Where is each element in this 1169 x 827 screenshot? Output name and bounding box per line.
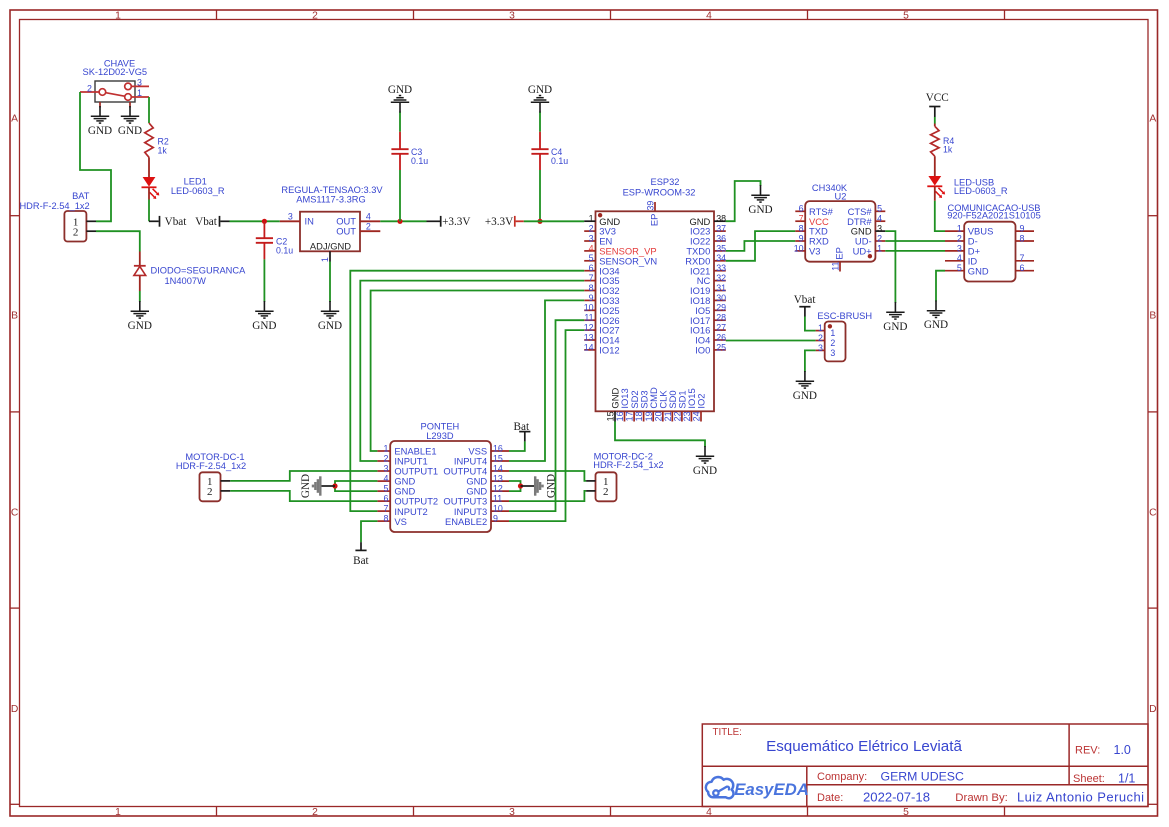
svg-text:Drawn By:: Drawn By: [955, 792, 1008, 804]
svg-text:9: 9 [493, 513, 498, 523]
svg-text:V3: V3 [809, 246, 820, 257]
svg-text:2: 2 [312, 10, 318, 21]
svg-text:SK-12D02-VG5: SK-12D02-VG5 [83, 67, 148, 77]
svg-text:VS: VS [394, 516, 407, 527]
wire Vbat to ESC pin1 [805, 317, 816, 331]
wire LED1 to Vbat flag [148, 200, 150, 222]
capacitor C3 0.1u [391, 132, 428, 170]
svg-text:0.1u: 0.1u [551, 156, 568, 166]
wire +3.3V to ESP32 pin1 [524, 220, 584, 222]
svg-text:22: 22 [672, 411, 682, 421]
svg-text:9: 9 [799, 233, 804, 243]
svg-text:10: 10 [493, 503, 503, 513]
title block [702, 724, 1148, 807]
svg-text:3: 3 [818, 343, 823, 353]
ground flag below C2 [252, 301, 276, 332]
ground flag sideways left [300, 474, 335, 498]
svg-text:2: 2 [87, 84, 92, 94]
svg-text:1.0: 1.0 [1114, 743, 1131, 757]
net flag Bat top [514, 421, 531, 442]
svg-text:4: 4 [706, 807, 712, 818]
svg-text:EasyEDA: EasyEDA [734, 780, 809, 799]
wire ESP32 IO35 to L293D INPUT1 [360, 281, 584, 461]
svg-text:16: 16 [615, 411, 625, 421]
svg-text:35: 35 [716, 243, 726, 253]
svg-text:3: 3 [288, 212, 293, 222]
svg-text:8: 8 [1020, 233, 1025, 243]
svg-text:ESC-BRUSH: ESC-BRUSH [817, 311, 872, 321]
wire ESP32 RXD0 to CH340K TXD [726, 231, 796, 261]
svg-text:20: 20 [653, 411, 663, 421]
wire ESP32 IO4 to ESC-BRUSH pin2 [726, 340, 816, 342]
svg-text:23: 23 [682, 411, 692, 421]
svg-text:5: 5 [383, 483, 388, 493]
svg-text:12: 12 [584, 323, 594, 333]
svg-text:21: 21 [663, 411, 673, 421]
wire L293D OUTPUT4 to MOTOR-DC-2 pin1 [509, 471, 586, 481]
svg-text:A: A [1149, 114, 1156, 125]
svg-text:GND: GND [924, 319, 948, 331]
svg-text:1: 1 [957, 224, 962, 234]
svg-text:2: 2 [73, 227, 79, 239]
net flag VCC [926, 92, 949, 117]
svg-text:5: 5 [957, 263, 962, 273]
svg-text:13: 13 [584, 332, 594, 342]
svg-text:EP: EP [649, 214, 660, 227]
capacitor C2 0.1u [256, 221, 293, 259]
svg-text:PONTEH: PONTEH [421, 421, 460, 431]
wire ESP32 IO32 to L293D ENABLE1 [371, 291, 585, 452]
svg-text:3: 3 [137, 78, 142, 88]
svg-text:L293D: L293D [426, 431, 454, 441]
svg-text:0.1u: 0.1u [411, 156, 428, 166]
wire C2 to ground [263, 259, 265, 302]
svg-text:ADJ/GND: ADJ/GND [310, 241, 351, 252]
svg-text:3: 3 [509, 10, 515, 21]
resistor R4 1k [931, 124, 955, 177]
IC U2 CH340K [794, 183, 886, 271]
svg-text:IN: IN [305, 216, 314, 227]
wire USB GND to ground [936, 271, 945, 302]
svg-text:AMS1117-3.3RG: AMS1117-3.3RG [296, 195, 365, 205]
net flag Vbat at ESC [794, 294, 817, 316]
ground flag below diode [128, 301, 152, 332]
connector MOTOR-DC-2 HDR-F-2.54_1x2 [586, 451, 663, 501]
svg-text:0.1u: 0.1u [276, 246, 293, 256]
svg-text:Vbat: Vbat [195, 216, 218, 228]
connector COMUNICACAO-USB 920-F52A2021S10105 [945, 203, 1041, 282]
svg-text:3: 3 [589, 233, 594, 243]
svg-text:GND: GND [793, 390, 817, 402]
svg-text:6: 6 [383, 493, 388, 503]
svg-text:2: 2 [830, 338, 835, 348]
svg-text:1: 1 [877, 243, 882, 253]
svg-text:13: 13 [493, 473, 503, 483]
ground flag below CH340K [883, 302, 907, 333]
svg-text:2: 2 [589, 224, 594, 234]
wire L293D VSS to Bat flag [509, 441, 525, 451]
wire ESP32 pin38 to ground [726, 181, 761, 221]
net flag Bat bottom [353, 542, 369, 567]
svg-text:3: 3 [830, 348, 835, 358]
svg-text:32: 32 [716, 273, 726, 283]
wire switch pin2 to BAT pin1 [80, 92, 111, 221]
net flag +3.3V left [427, 216, 471, 228]
svg-text:10: 10 [794, 243, 804, 253]
ground flag below ESP32 [693, 446, 717, 477]
wire CH340K GND to ground [885, 231, 895, 303]
svg-text:EP: EP [833, 247, 844, 260]
ground flag below ESC [793, 371, 817, 402]
svg-text:1: 1 [320, 257, 330, 262]
svg-text:1: 1 [818, 323, 823, 333]
svg-text:C: C [11, 507, 19, 518]
svg-text:IO12: IO12 [599, 345, 619, 356]
svg-text:2: 2 [207, 486, 213, 498]
svg-text:15: 15 [493, 453, 503, 463]
svg-text:2: 2 [877, 233, 882, 243]
svg-text:IO2: IO2 [696, 393, 707, 408]
wire BAT pin2 to diode [96, 231, 140, 251]
svg-text:6: 6 [589, 263, 594, 273]
switch CHAVE SK-12D02-VG5 [80, 59, 149, 108]
svg-text:GND: GND [968, 265, 989, 276]
svg-text:D: D [1149, 704, 1156, 715]
svg-text:11: 11 [584, 313, 593, 323]
IC U1 ESP32 ESP-WROOM-32 [584, 177, 726, 421]
svg-text:GND: GND [252, 320, 276, 332]
net flag Vbat left [149, 216, 187, 228]
svg-text:GERM UDESC: GERM UDESC [881, 769, 964, 783]
svg-text:Vbat: Vbat [794, 294, 817, 306]
svg-text:19: 19 [644, 411, 654, 421]
resistor R2 1k [145, 123, 169, 177]
svg-text:OUT: OUT [336, 226, 356, 237]
LED LED-USB LED-0603_R [927, 176, 1008, 201]
wire diode to ground [139, 291, 141, 302]
svg-text:Luiz Antonio Peruchi: Luiz Antonio Peruchi [1017, 790, 1145, 805]
svg-text:17: 17 [625, 411, 635, 421]
svg-text:15: 15 [606, 411, 616, 421]
wire ESC pin3 to ground [805, 350, 816, 372]
svg-text:2: 2 [366, 222, 371, 232]
svg-text:2022-07-18: 2022-07-18 [863, 790, 930, 805]
svg-text:GND: GND [748, 204, 772, 216]
svg-text:14: 14 [584, 342, 594, 352]
junction left GND [332, 483, 337, 488]
svg-text:VCC: VCC [926, 92, 949, 104]
svg-text:U2: U2 [835, 192, 847, 202]
svg-text:31: 31 [716, 283, 726, 293]
svg-text:27: 27 [716, 323, 726, 333]
svg-text:1: 1 [830, 328, 835, 338]
svg-text:GND: GND [128, 320, 152, 332]
wire LED-USB to USB VBUS [935, 201, 945, 231]
svg-text:33: 33 [716, 263, 726, 273]
wire switch pin1 down to R2 [148, 97, 150, 123]
svg-text:3: 3 [509, 807, 515, 818]
svg-text:4: 4 [957, 253, 962, 263]
wire ESP32 TXD0 to CH340K RXD [726, 241, 796, 251]
svg-text:1N4007W: 1N4007W [165, 276, 207, 286]
svg-text:Date:: Date: [817, 792, 843, 804]
svg-text:7: 7 [799, 214, 804, 224]
svg-text:5: 5 [877, 204, 882, 214]
svg-text:30: 30 [716, 293, 726, 303]
svg-text:29: 29 [716, 303, 726, 313]
svg-text:3: 3 [383, 463, 388, 473]
connector MOTOR-DC-1 HDR-F-2.54_1x2 [176, 452, 246, 501]
wire CH340K UD- to USB D- [885, 240, 945, 242]
svg-text:Sheet:: Sheet: [1073, 773, 1105, 785]
svg-text:7: 7 [383, 503, 388, 513]
svg-text:2: 2 [312, 807, 318, 818]
svg-text:4: 4 [706, 10, 712, 21]
svg-text:12: 12 [493, 483, 503, 493]
svg-text:ESP-WROOM-32: ESP-WROOM-32 [623, 187, 696, 197]
svg-text:1: 1 [383, 443, 388, 453]
wire C3 to ground [399, 112, 401, 132]
svg-text:ENABLE2: ENABLE2 [445, 516, 487, 527]
svg-text:8: 8 [799, 224, 804, 234]
wire C4 to ground [539, 112, 541, 132]
wire VCC to R4 [934, 117, 936, 124]
svg-text:39: 39 [645, 201, 655, 211]
svg-text:2: 2 [383, 453, 388, 463]
svg-text:25: 25 [716, 342, 726, 352]
svg-text:Bat: Bat [353, 555, 369, 567]
wire C4 to rail [539, 170, 541, 221]
svg-text:GND: GND [88, 125, 112, 137]
net flag Vbat right [195, 216, 229, 228]
svg-text:ESP32: ESP32 [651, 177, 680, 187]
svg-text:A: A [11, 114, 18, 125]
svg-text:1: 1 [115, 10, 121, 21]
svg-text:GND: GND [118, 125, 142, 137]
connector BAT HDR-F-2.54_1x2 [19, 191, 96, 242]
svg-text:TITLE:: TITLE: [713, 727, 742, 738]
junction at C4 [537, 219, 542, 224]
svg-text:5: 5 [903, 10, 909, 21]
svg-text:HDR-F-2.54_1x2: HDR-F-2.54_1x2 [19, 201, 89, 211]
svg-text:9: 9 [1020, 224, 1025, 234]
svg-text:B: B [1149, 311, 1156, 322]
svg-text:11: 11 [493, 493, 502, 503]
svg-text:920-F52A2021S10105: 920-F52A2021S10105 [947, 211, 1041, 221]
svg-text:4: 4 [383, 473, 388, 483]
junction at C3 [397, 219, 402, 224]
wire L293D OUTPUT3 to MOTOR-DC-2 pin2 [509, 491, 586, 501]
svg-text:10: 10 [584, 303, 594, 313]
svg-text:BAT: BAT [72, 191, 90, 201]
svg-text:18: 18 [634, 411, 644, 421]
ground flag below switch pin 4 [88, 106, 112, 137]
svg-text:34: 34 [716, 253, 726, 263]
svg-text:GND: GND [528, 84, 552, 96]
svg-text:6: 6 [799, 204, 804, 214]
wire ESP32 IO34 to L293D INPUT2 [350, 271, 584, 511]
svg-text:HDR-F-2.54_1x2: HDR-F-2.54_1x2 [176, 461, 246, 471]
svg-text:Vbat: Vbat [165, 216, 188, 228]
svg-text:GND: GND [300, 474, 312, 498]
svg-text:2: 2 [957, 233, 962, 243]
IC PONTEH L293D [377, 421, 509, 532]
svg-text:GND: GND [318, 320, 342, 332]
svg-text:37: 37 [716, 224, 726, 234]
svg-text:3: 3 [877, 224, 882, 234]
wire regulator OUT to +3.3V flag [380, 220, 426, 222]
svg-text:28: 28 [716, 313, 726, 323]
svg-text:REV:: REV: [1075, 745, 1100, 757]
capacitor C4 0.1u [531, 132, 568, 170]
svg-text:4: 4 [877, 214, 882, 224]
svg-text:GND: GND [545, 474, 557, 498]
svg-text:C: C [1149, 507, 1157, 518]
svg-text:14: 14 [493, 463, 503, 473]
connector ESC-BRUSH [816, 311, 872, 361]
wire L293D GND pins left [335, 481, 377, 491]
svg-text:+3.3V: +3.3V [442, 216, 470, 228]
svg-text:7: 7 [1020, 253, 1025, 263]
svg-text:9: 9 [589, 293, 594, 303]
wire C3 to rail [399, 170, 401, 221]
svg-text:Esquemático Elétrico Leviatã: Esquemático Elétrico Leviatã [766, 738, 962, 755]
svg-text:5: 5 [589, 253, 594, 263]
svg-text:26: 26 [716, 332, 726, 342]
svg-text:4: 4 [366, 212, 371, 222]
svg-text:8: 8 [589, 283, 594, 293]
svg-text:1/1: 1/1 [1118, 772, 1135, 786]
wire ESP32 IO27 to L293D ENABLE2 [509, 330, 584, 521]
diode DIODO=SEGURANCA 1N4007W [134, 252, 246, 292]
ground flag sideways right [521, 474, 558, 498]
ground flag right of ESP32 top [748, 185, 772, 216]
svg-text:LED-0603_R: LED-0603_R [954, 186, 1008, 196]
ground flag below switch pin 5 [118, 106, 142, 137]
LED LED1 LED-0603_R [142, 177, 225, 200]
svg-text:HDR-F-2.54_1x2: HDR-F-2.54_1x2 [593, 460, 663, 470]
junction right GND [518, 483, 523, 488]
svg-text:11: 11 [831, 262, 841, 271]
svg-text:2: 2 [603, 486, 609, 498]
svg-text:1: 1 [115, 807, 121, 818]
wire L293D VS to Bat flag [361, 521, 377, 542]
junction at C2 [262, 219, 267, 224]
svg-text:7: 7 [589, 273, 594, 283]
ground flag above C4 [528, 84, 552, 113]
regulator U AMS1117-3.3 REGULA-TENSAO [280, 185, 384, 262]
svg-text:3: 3 [957, 243, 962, 253]
svg-text:36: 36 [716, 233, 726, 243]
svg-text:DIODO=SEGURANCA: DIODO=SEGURANCA [151, 266, 247, 276]
svg-text:B: B [11, 311, 18, 322]
svg-text:1: 1 [137, 88, 142, 98]
svg-text:+3.3V: +3.3V [485, 216, 513, 228]
svg-text:5: 5 [903, 807, 909, 818]
svg-text:38: 38 [716, 214, 726, 224]
svg-text:D: D [11, 704, 18, 715]
svg-text:16: 16 [493, 443, 503, 453]
wire L293D GND pins right [509, 481, 521, 491]
svg-text:8: 8 [383, 513, 388, 523]
EasyEDA logo [706, 777, 809, 799]
wire regulator ADJ to ground [329, 262, 331, 303]
svg-text:GND: GND [388, 84, 412, 96]
svg-text:6: 6 [1020, 263, 1025, 273]
svg-text:24: 24 [692, 411, 702, 421]
svg-text:1k: 1k [158, 146, 168, 156]
wire ESP32 pin15 to ground [615, 422, 705, 448]
wire ESP32 IO33 to L293D INPUT4 [509, 300, 584, 461]
svg-text:GND: GND [883, 321, 907, 333]
svg-text:1: 1 [589, 214, 594, 224]
wire MOTOR-DC-1 pin1 to OUTPUT1 [230, 471, 377, 481]
svg-text:2: 2 [818, 333, 823, 343]
wire Vbat to regulator IN [230, 220, 280, 222]
wire CH340K UD+ to USB D+ [885, 250, 945, 252]
svg-text:GND: GND [693, 465, 717, 477]
svg-text:LED-0603_R: LED-0603_R [171, 186, 225, 196]
wire ESP32 IO26 to L293D INPUT3 [509, 320, 584, 511]
svg-text:1k: 1k [943, 145, 953, 155]
svg-text:IO0: IO0 [695, 345, 710, 356]
ground flag below regulator [318, 301, 342, 332]
svg-text:REGULA-TENSAO:3.3V: REGULA-TENSAO:3.3V [281, 185, 383, 195]
wire MOTOR-DC-1 pin2 to OUTPUT2 [230, 491, 377, 501]
ground flag above C3 [388, 84, 412, 113]
svg-text:4: 4 [589, 243, 594, 253]
ground flag below USB [924, 300, 948, 331]
svg-text:Company:: Company: [817, 771, 867, 783]
net flag +3.3V right [485, 216, 524, 228]
